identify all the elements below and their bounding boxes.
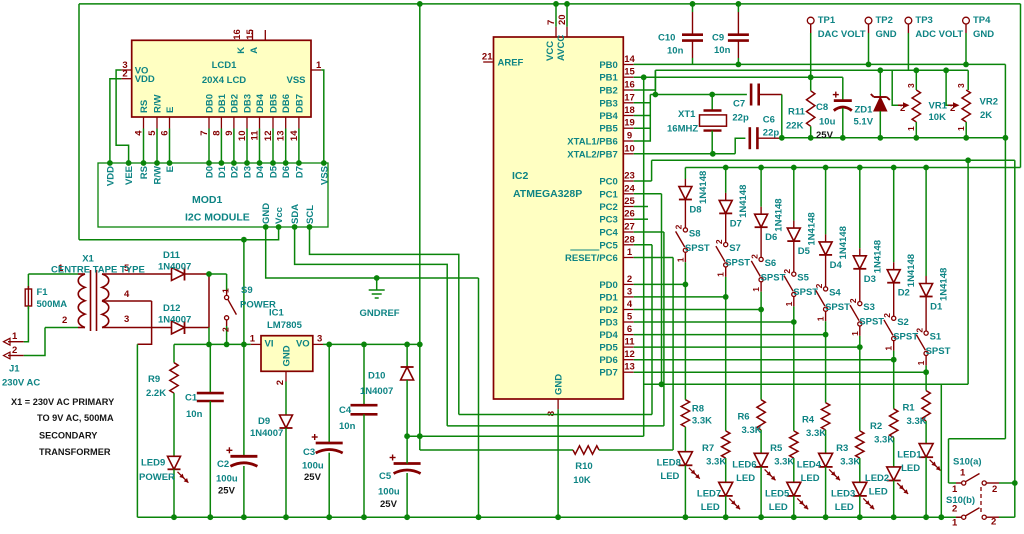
svg-text:SECONDARY: SECONDARY xyxy=(39,431,97,441)
svg-text:100u: 100u xyxy=(302,461,324,472)
svg-text:3.3K: 3.3K xyxy=(742,425,762,436)
svg-text:10K: 10K xyxy=(929,112,947,123)
svg-text:D12: D12 xyxy=(163,303,180,314)
svg-text:10n: 10n xyxy=(186,409,203,420)
svg-text:25: 25 xyxy=(624,196,635,207)
svg-text:CENTRE TAPE TYPE: CENTRE TAPE TYPE xyxy=(51,265,145,276)
svg-text:2: 2 xyxy=(782,269,792,274)
svg-text:PC0: PC0 xyxy=(599,177,617,188)
svg-text:1: 1 xyxy=(952,518,958,529)
svg-text:AVCC: AVCC xyxy=(556,35,567,61)
svg-text:LM7805: LM7805 xyxy=(267,320,303,331)
svg-text:S6: S6 xyxy=(765,258,777,269)
svg-text:1: 1 xyxy=(916,360,926,365)
svg-text:PB1: PB1 xyxy=(599,73,618,84)
svg-text:D4: D4 xyxy=(255,165,266,178)
svg-text:3.3K: 3.3K xyxy=(692,416,712,427)
svg-text:25V: 25V xyxy=(380,499,398,510)
svg-text:GND: GND xyxy=(973,29,994,40)
svg-text:1N4007: 1N4007 xyxy=(360,386,393,397)
svg-text:IC2: IC2 xyxy=(512,170,529,182)
svg-text:3: 3 xyxy=(627,286,632,297)
svg-text:LED: LED xyxy=(769,502,788,513)
svg-text:D1: D1 xyxy=(217,165,228,178)
svg-text:2: 2 xyxy=(992,484,997,495)
svg-text:C4: C4 xyxy=(339,405,352,416)
svg-text:TP2: TP2 xyxy=(876,15,893,26)
svg-text:S5: S5 xyxy=(797,273,809,284)
svg-text:LED: LED xyxy=(701,502,720,513)
svg-text:PC2: PC2 xyxy=(599,202,617,213)
svg-text:VR2: VR2 xyxy=(980,97,998,108)
svg-text:2: 2 xyxy=(275,380,286,385)
svg-text:1N4007: 1N4007 xyxy=(158,262,191,273)
svg-text:S10(a): S10(a) xyxy=(953,457,982,468)
svg-text:D5: D5 xyxy=(269,165,280,178)
svg-text:100u: 100u xyxy=(216,474,238,485)
svg-text:R7: R7 xyxy=(702,443,714,454)
svg-text:PD0: PD0 xyxy=(599,280,617,291)
svg-text:2: 2 xyxy=(749,254,759,259)
svg-text:DB4: DB4 xyxy=(255,93,266,113)
svg-text:SPST: SPST xyxy=(859,317,884,328)
svg-text:27: 27 xyxy=(624,222,635,233)
svg-text:3: 3 xyxy=(906,83,916,88)
svg-text:VDD: VDD xyxy=(135,74,155,85)
svg-text:25V: 25V xyxy=(218,486,236,497)
svg-text:MOD1: MOD1 xyxy=(192,194,222,206)
svg-text:2: 2 xyxy=(122,69,127,80)
svg-text:ATMEGA328P: ATMEGA328P xyxy=(513,188,582,200)
svg-text:RESET/PC6: RESET/PC6 xyxy=(565,253,618,264)
svg-text:LED5: LED5 xyxy=(765,488,790,499)
svg-text:1: 1 xyxy=(784,301,794,306)
svg-text:TO 9V AC, 500MA: TO 9V AC, 500MA xyxy=(37,413,114,423)
svg-text:PD5: PD5 xyxy=(599,343,618,354)
svg-text:1: 1 xyxy=(12,331,18,342)
svg-text:TRANSFORMER: TRANSFORMER xyxy=(39,447,111,457)
svg-text:10: 10 xyxy=(624,143,635,154)
svg-text:LED9: LED9 xyxy=(141,458,165,469)
svg-text:RS: RS xyxy=(139,100,150,113)
svg-text:1: 1 xyxy=(751,287,761,292)
svg-text:SPST: SPST xyxy=(685,243,710,254)
svg-text:10n: 10n xyxy=(714,45,731,56)
svg-text:LED: LED xyxy=(869,486,888,497)
svg-text:LED6: LED6 xyxy=(732,459,756,470)
svg-text:SPST: SPST xyxy=(825,302,850,313)
svg-text:25V: 25V xyxy=(304,472,322,483)
svg-text:E: E xyxy=(165,107,176,113)
svg-text:PC1: PC1 xyxy=(599,189,618,200)
svg-text:4: 4 xyxy=(627,299,633,310)
svg-text:1: 1 xyxy=(716,272,726,277)
svg-text:2: 2 xyxy=(952,504,957,515)
svg-text:18: 18 xyxy=(624,105,635,116)
svg-text:13: 13 xyxy=(624,362,635,373)
svg-text:D8: D8 xyxy=(689,205,701,216)
svg-text:DB2: DB2 xyxy=(229,94,240,113)
svg-text:1: 1 xyxy=(956,126,966,131)
svg-text:16: 16 xyxy=(232,29,243,40)
svg-text:PD3: PD3 xyxy=(599,318,617,329)
svg-text:3.3K: 3.3K xyxy=(840,456,860,467)
svg-text:E: E xyxy=(165,166,176,172)
svg-text:PB3: PB3 xyxy=(599,98,617,109)
svg-text:DB3: DB3 xyxy=(243,94,254,113)
svg-text:10n: 10n xyxy=(339,421,356,432)
svg-text:J1: J1 xyxy=(9,364,20,375)
svg-text:1: 1 xyxy=(675,257,685,262)
svg-text:11: 11 xyxy=(624,337,635,348)
svg-text:2K: 2K xyxy=(980,110,992,121)
svg-text:1N4148: 1N4148 xyxy=(906,254,917,287)
svg-text:GND: GND xyxy=(261,203,272,224)
svg-text:VI: VI xyxy=(265,339,274,350)
svg-text:VSS: VSS xyxy=(319,166,330,185)
svg-text:GND: GND xyxy=(282,345,293,366)
svg-text:SPST: SPST xyxy=(926,346,951,357)
svg-text:LED: LED xyxy=(736,473,755,484)
svg-text:2: 2 xyxy=(674,224,684,229)
svg-text:1: 1 xyxy=(221,288,231,293)
svg-text:D3: D3 xyxy=(864,274,876,285)
svg-text:C9: C9 xyxy=(712,33,724,44)
svg-text:C2: C2 xyxy=(217,459,229,470)
svg-text:R6: R6 xyxy=(737,412,749,423)
svg-text:XTAL1/PB6: XTAL1/PB6 xyxy=(567,137,618,148)
svg-text:C5: C5 xyxy=(379,471,392,482)
svg-text:ZD1: ZD1 xyxy=(855,105,874,116)
svg-text:20X4 LCD: 20X4 LCD xyxy=(202,75,246,86)
svg-text:1N4148: 1N4148 xyxy=(738,185,749,218)
svg-text:2: 2 xyxy=(914,328,924,333)
svg-text:2.2K: 2.2K xyxy=(146,388,166,399)
svg-text:R10: R10 xyxy=(575,461,592,472)
svg-text:1N4148: 1N4148 xyxy=(838,226,849,259)
svg-text:10K: 10K xyxy=(573,475,591,486)
svg-text:1: 1 xyxy=(250,334,256,345)
svg-text:1N4007: 1N4007 xyxy=(158,315,191,326)
svg-text:S4: S4 xyxy=(829,287,841,298)
svg-text:S10(b): S10(b) xyxy=(946,495,975,506)
svg-text:14: 14 xyxy=(624,54,635,65)
svg-text:GND: GND xyxy=(876,29,897,40)
svg-text:LED2: LED2 xyxy=(865,473,889,484)
svg-text:15: 15 xyxy=(624,67,635,78)
svg-text:3.3K: 3.3K xyxy=(706,456,726,467)
svg-text:SPST: SPST xyxy=(725,258,750,269)
svg-text:PB0: PB0 xyxy=(599,60,617,71)
svg-text:DB1: DB1 xyxy=(217,93,228,113)
svg-text:5.1V: 5.1V xyxy=(854,117,874,128)
svg-text:1N4148: 1N4148 xyxy=(939,268,950,301)
svg-text:9: 9 xyxy=(627,131,632,142)
svg-text:D2: D2 xyxy=(229,166,240,178)
svg-text:16: 16 xyxy=(624,80,635,91)
svg-text:1N4148: 1N4148 xyxy=(806,212,817,245)
svg-text:VO: VO xyxy=(296,339,310,350)
svg-text:R11: R11 xyxy=(788,107,806,118)
svg-text:23: 23 xyxy=(624,171,635,182)
svg-text:K: K xyxy=(236,47,247,54)
svg-text:S3: S3 xyxy=(863,302,875,313)
svg-text:1N4148: 1N4148 xyxy=(774,198,785,231)
svg-text:2: 2 xyxy=(848,298,858,303)
svg-text:22K: 22K xyxy=(786,120,804,131)
svg-text:10n: 10n xyxy=(667,46,684,57)
svg-text:PC4: PC4 xyxy=(599,228,618,239)
svg-text:LED: LED xyxy=(660,471,679,482)
svg-text:D7: D7 xyxy=(730,218,742,229)
svg-text:6: 6 xyxy=(627,324,632,335)
svg-text:SDA: SDA xyxy=(290,204,301,224)
svg-text:LED7: LED7 xyxy=(697,488,721,499)
svg-text:16MHZ: 16MHZ xyxy=(667,123,698,134)
svg-text:1N4007: 1N4007 xyxy=(250,428,283,439)
svg-text:PB5: PB5 xyxy=(599,124,618,135)
svg-text:LED1: LED1 xyxy=(897,450,922,461)
svg-text:XTAL2/PB7: XTAL2/PB7 xyxy=(567,149,618,160)
svg-text:LED8: LED8 xyxy=(657,458,681,469)
svg-text:ADC VOLT: ADC VOLT xyxy=(915,29,963,40)
svg-text:D1: D1 xyxy=(930,302,943,313)
svg-text:D6: D6 xyxy=(281,166,292,178)
svg-text:C7: C7 xyxy=(733,98,745,109)
svg-text:PD1: PD1 xyxy=(599,292,618,303)
svg-text:2: 2 xyxy=(882,313,892,318)
svg-text:1: 1 xyxy=(906,126,916,131)
svg-text:VSS: VSS xyxy=(286,75,305,86)
svg-text:100u: 100u xyxy=(378,487,400,498)
svg-text:DB6: DB6 xyxy=(281,94,292,113)
svg-text:VDD: VDD xyxy=(105,166,116,186)
svg-text:PD7: PD7 xyxy=(599,368,617,379)
svg-text:R4: R4 xyxy=(802,415,815,426)
svg-text:1: 1 xyxy=(627,247,633,258)
svg-text:R5: R5 xyxy=(770,443,783,454)
svg-text:D2: D2 xyxy=(898,288,910,299)
svg-text:I2C MODULE: I2C MODULE xyxy=(185,212,250,224)
svg-text:D9: D9 xyxy=(258,416,270,427)
svg-text:S7: S7 xyxy=(729,243,741,254)
svg-text:LED: LED xyxy=(901,463,920,474)
svg-text:AREF: AREF xyxy=(498,58,524,69)
svg-text:S9: S9 xyxy=(241,285,253,296)
svg-text:VCC: VCC xyxy=(545,41,556,61)
svg-text:Vcc: Vcc xyxy=(274,207,285,224)
svg-text:2: 2 xyxy=(714,239,724,244)
svg-text:3: 3 xyxy=(317,334,322,345)
svg-text:3: 3 xyxy=(956,83,966,88)
svg-text:RS: RS xyxy=(139,166,150,179)
svg-text:1: 1 xyxy=(850,331,860,336)
svg-text:D7: D7 xyxy=(294,166,305,178)
svg-text:SCL: SCL xyxy=(305,205,316,224)
svg-text:D4: D4 xyxy=(830,260,843,271)
svg-text:DAC VOLT: DAC VOLT xyxy=(818,29,866,40)
svg-text:1N4148: 1N4148 xyxy=(698,171,709,204)
svg-text:3.3K: 3.3K xyxy=(806,428,826,439)
svg-text:3.3K: 3.3K xyxy=(907,416,927,427)
svg-text:28: 28 xyxy=(624,234,635,245)
svg-text:PB2: PB2 xyxy=(599,86,617,97)
svg-text:R/W: R/W xyxy=(153,95,164,114)
svg-text:S1: S1 xyxy=(930,332,942,343)
svg-text:POWER: POWER xyxy=(139,472,175,483)
svg-text:LED4: LED4 xyxy=(797,459,822,470)
svg-text:5: 5 xyxy=(627,312,633,323)
svg-text:DB0: DB0 xyxy=(205,94,216,113)
svg-text:D10: D10 xyxy=(368,371,385,382)
svg-text:1: 1 xyxy=(316,60,322,71)
svg-text:3.3K: 3.3K xyxy=(774,456,794,467)
svg-text:19: 19 xyxy=(624,118,635,129)
svg-text:R3: R3 xyxy=(836,443,848,454)
svg-text:LED: LED xyxy=(835,502,854,513)
svg-text:C10: C10 xyxy=(658,33,675,44)
svg-text:S2: S2 xyxy=(897,317,909,328)
svg-text:LED3: LED3 xyxy=(831,488,855,499)
svg-text:1: 1 xyxy=(960,468,966,479)
svg-text:3: 3 xyxy=(124,314,129,325)
svg-text:R1: R1 xyxy=(902,403,915,414)
svg-text:15: 15 xyxy=(245,29,256,40)
svg-text:LED: LED xyxy=(801,473,820,484)
svg-text:TP3: TP3 xyxy=(915,15,932,26)
svg-text:C8: C8 xyxy=(816,102,828,113)
svg-text:S8: S8 xyxy=(689,228,701,239)
svg-text:PC3: PC3 xyxy=(599,215,617,226)
svg-text:TP1: TP1 xyxy=(818,15,836,26)
svg-text:C3: C3 xyxy=(303,447,315,458)
svg-text:A: A xyxy=(249,47,260,54)
svg-text:26: 26 xyxy=(624,209,635,220)
svg-text:TP4: TP4 xyxy=(973,15,991,26)
svg-text:4: 4 xyxy=(124,289,130,300)
svg-text:PD6: PD6 xyxy=(599,355,617,366)
svg-text:1: 1 xyxy=(816,316,826,321)
svg-text:230V AC: 230V AC xyxy=(2,378,40,389)
svg-text:VEE: VEE xyxy=(124,166,135,185)
svg-text:R2: R2 xyxy=(870,421,882,432)
svg-text:2: 2 xyxy=(221,327,231,332)
svg-text:PD2: PD2 xyxy=(599,305,617,316)
svg-text:PD4: PD4 xyxy=(599,330,618,341)
svg-text:1: 1 xyxy=(884,346,894,351)
svg-text:22p: 22p xyxy=(763,128,780,139)
svg-text:R8: R8 xyxy=(692,404,704,415)
svg-text:GND: GND xyxy=(554,374,565,395)
svg-text:500MA: 500MA xyxy=(37,299,68,310)
svg-text:PC5: PC5 xyxy=(599,240,618,251)
svg-text:D11: D11 xyxy=(163,250,181,261)
svg-text:3.3K: 3.3K xyxy=(874,434,894,445)
svg-text:2: 2 xyxy=(12,345,17,356)
svg-text:GNDREF: GNDREF xyxy=(360,308,400,319)
svg-text:X1: X1 xyxy=(82,254,94,265)
svg-text:20: 20 xyxy=(557,14,568,25)
svg-text:D5: D5 xyxy=(798,246,811,257)
svg-text:C6: C6 xyxy=(763,115,775,126)
svg-text:17: 17 xyxy=(624,92,635,103)
svg-text:IC1: IC1 xyxy=(269,308,285,319)
svg-text:2: 2 xyxy=(62,315,67,326)
svg-text:R9: R9 xyxy=(148,374,160,385)
svg-text:25V: 25V xyxy=(816,130,834,141)
svg-text:24: 24 xyxy=(624,183,635,194)
svg-text:XT1: XT1 xyxy=(678,109,696,120)
svg-text:1: 1 xyxy=(952,484,958,495)
svg-text:2: 2 xyxy=(627,274,632,285)
svg-text:X1 = 230V AC PRIMARY: X1 = 230V AC PRIMARY xyxy=(11,397,114,407)
svg-text:F1: F1 xyxy=(37,287,49,298)
svg-text:2: 2 xyxy=(814,283,824,288)
svg-text:LCD1: LCD1 xyxy=(212,60,238,71)
svg-text:VR1: VR1 xyxy=(929,101,948,112)
svg-text:R/W: R/W xyxy=(153,166,164,185)
svg-text:C1: C1 xyxy=(185,393,198,404)
svg-text:2: 2 xyxy=(950,103,955,114)
svg-text:2: 2 xyxy=(900,103,905,114)
svg-text:12: 12 xyxy=(624,349,635,360)
svg-text:8: 8 xyxy=(546,411,557,416)
svg-text:1N4148: 1N4148 xyxy=(872,240,883,273)
svg-text:7: 7 xyxy=(546,20,557,25)
svg-text:10u: 10u xyxy=(819,116,836,127)
svg-text:21: 21 xyxy=(482,52,493,63)
svg-text:PB4: PB4 xyxy=(599,111,618,122)
svg-text:D0: D0 xyxy=(205,166,216,178)
svg-text:D6: D6 xyxy=(765,232,777,243)
svg-text:22p: 22p xyxy=(732,113,749,124)
svg-text:DB7: DB7 xyxy=(294,94,305,113)
svg-text:D3: D3 xyxy=(243,166,254,178)
svg-text:DB5: DB5 xyxy=(269,93,280,113)
svg-text:2: 2 xyxy=(991,517,996,528)
